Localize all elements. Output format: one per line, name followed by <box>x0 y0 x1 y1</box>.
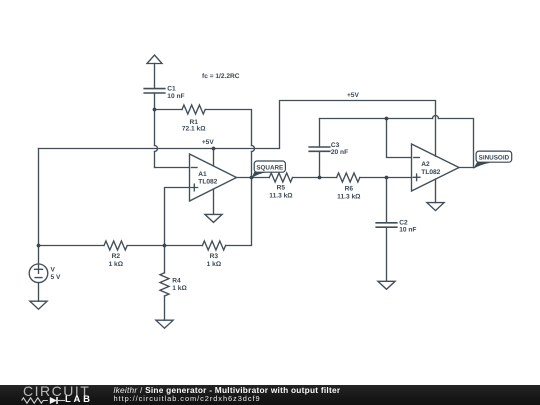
svg-text:R6: R6 <box>345 185 354 192</box>
svg-text:10 nF: 10 nF <box>167 93 184 100</box>
svg-text:+5V: +5V <box>202 139 215 146</box>
svg-text:1 kΩ: 1 kΩ <box>109 261 124 268</box>
svg-text:TL082: TL082 <box>198 179 217 186</box>
svg-text:5 V: 5 V <box>51 274 61 281</box>
svg-text:SQUARE: SQUARE <box>256 164 283 171</box>
svg-text:C2: C2 <box>399 220 408 227</box>
svg-text:11.3 kΩ: 11.3 kΩ <box>337 193 361 200</box>
svg-text:72.1 kΩ: 72.1 kΩ <box>182 126 206 133</box>
svg-text:TL082: TL082 <box>421 169 440 176</box>
svg-text:R3: R3 <box>210 253 219 260</box>
svg-text:C1: C1 <box>167 85 176 92</box>
svg-text:R5: R5 <box>277 184 286 191</box>
svg-text:A2: A2 <box>421 161 430 168</box>
svg-text:A1: A1 <box>198 171 207 178</box>
svg-text:11.3 kΩ: 11.3 kΩ <box>269 192 293 199</box>
svg-text:1 kΩ: 1 kΩ <box>207 261 222 268</box>
svg-text:V: V <box>51 267 56 274</box>
svg-text:1 kΩ: 1 kΩ <box>172 285 187 292</box>
svg-text:20 nF: 20 nF <box>331 149 348 156</box>
svg-text:fc = 1/2.2RC: fc = 1/2.2RC <box>202 73 240 80</box>
svg-text:R2: R2 <box>112 253 121 260</box>
svg-text:SINUSOID: SINUSOID <box>479 154 510 161</box>
svg-text:10 nF: 10 nF <box>399 227 416 234</box>
svg-text:+5V: +5V <box>347 92 360 99</box>
svg-text:R4: R4 <box>172 277 181 284</box>
